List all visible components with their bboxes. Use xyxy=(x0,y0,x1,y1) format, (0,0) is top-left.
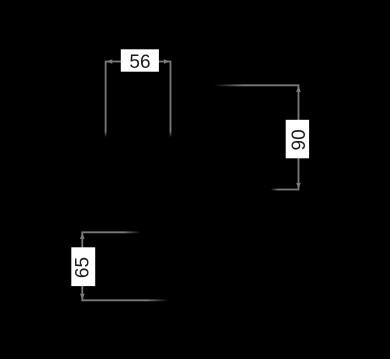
dimension 90: bottom arrowhead xyxy=(296,183,301,190)
dimension 90: extension + dimension polyline xyxy=(215,85,299,189)
dimension 56: right extension line fade-out xyxy=(169,131,173,137)
dimension 90: top arrowhead xyxy=(296,85,301,92)
dimension 65: extension + dimension polyline xyxy=(82,232,168,300)
svg-text:65: 65 xyxy=(73,257,94,278)
svg-text:90: 90 xyxy=(289,129,310,150)
svg-text:56: 56 xyxy=(129,52,150,73)
dimension 90: label box xyxy=(286,120,309,159)
dimension 90: top extension line fade-in xyxy=(214,83,243,87)
dimension 56: label box xyxy=(121,49,159,71)
dimension 56: left extension line fade-out xyxy=(104,131,108,137)
dimension 65: top arrowhead xyxy=(80,232,85,239)
dimension 65: bottom extension line fade-out xyxy=(147,298,170,302)
dimension 56: extension + dimension polyline xyxy=(106,62,171,137)
dimension 56: left arrowhead xyxy=(106,59,113,64)
dimension 90: bottom extension line fade-in xyxy=(270,188,278,192)
dimension 65: label box xyxy=(71,247,95,286)
dimension 65: bottom arrowhead xyxy=(80,294,85,301)
dimension 65: top extension line fade-out xyxy=(124,230,141,234)
dimension 56: right arrowhead xyxy=(164,59,171,64)
